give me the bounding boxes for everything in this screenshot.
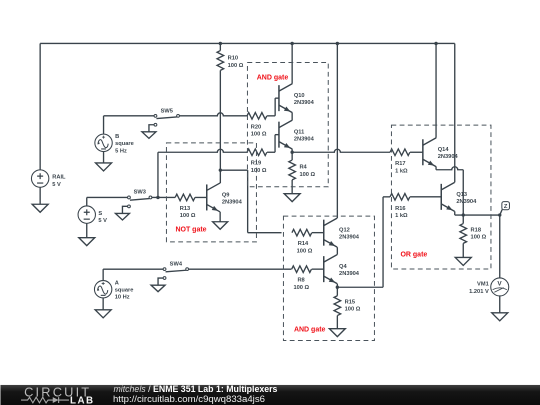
svg-text:R18: R18 [471, 227, 481, 233]
svg-text:100 Ω: 100 Ω [345, 307, 361, 313]
transistor Q14 [423, 138, 459, 167]
title text [113, 384, 278, 404]
resistor R4 [289, 152, 316, 193]
wire B to SW5 [104, 115, 155, 117]
svg-text:R20: R20 [251, 124, 261, 130]
svg-text:Q12: Q12 [339, 228, 350, 234]
svg-text:VM1: VM1 [477, 282, 489, 288]
transistor Q4 [324, 255, 360, 284]
wire Q12 emitter to Q4 collector [336, 247, 338, 255]
transistor Q12 [324, 218, 360, 247]
svg-text:SW4: SW4 [170, 261, 183, 267]
wire Q10 collector to rail [291, 43, 293, 83]
ground VM1 [492, 313, 508, 321]
ground RAIL [32, 204, 48, 212]
svg-text:100 Ω: 100 Ω [228, 63, 244, 69]
svg-text:RAIL: RAIL [52, 175, 66, 181]
node junction top-R10 [219, 42, 222, 45]
resistor R15 [334, 287, 361, 328]
svg-text:2N3904: 2N3904 [294, 137, 315, 143]
wire rail top [40, 43, 455, 169]
wire R17 to Q14 base [410, 151, 423, 153]
svg-text:Q14: Q14 [438, 147, 450, 153]
svg-text:SW5: SW5 [161, 109, 173, 115]
svg-text:100 Ω: 100 Ω [180, 213, 196, 219]
svg-text:100 Ω: 100 Ω [251, 168, 267, 174]
svg-text:2N3904: 2N3904 [339, 235, 360, 241]
node junction top-Q12 collector [336, 42, 339, 45]
svg-text:Q9: Q9 [222, 192, 230, 198]
wire Q11 emitter [291, 149, 293, 152]
wire R20 to Q10 base [267, 98, 279, 116]
label OR gate [400, 251, 427, 258]
wire SW5 to R20 [179, 113, 247, 116]
resistor R16 [390, 194, 410, 220]
svg-text:R16: R16 [395, 206, 405, 212]
wire R19 to Q11 base [267, 135, 279, 153]
svg-text:100 Ω: 100 Ω [297, 248, 313, 254]
svg-text:mitchels / ENME 351 Lab 1: Mul: mitchels / ENME 351 Lab 1: Multiplexers [113, 384, 277, 394]
svg-text:R4: R4 [299, 165, 307, 171]
switch SW4 [151, 261, 189, 291]
ground S [79, 238, 95, 246]
svg-text:2N3904: 2N3904 [294, 100, 315, 106]
svg-text:R15: R15 [345, 300, 355, 306]
svg-text:http://circuitlab.com/c9qwq833: http://circuitlab.com/c9qwq833a4js6 [113, 394, 265, 404]
svg-text:Q11: Q11 [294, 130, 304, 136]
svg-text:R17: R17 [395, 161, 405, 167]
svg-text:S: S [98, 211, 102, 217]
wire AND1 output to R17 [292, 149, 390, 152]
resistor R14 [292, 229, 313, 254]
svg-text:square: square [115, 141, 134, 147]
wire R14 to Q12 base [312, 232, 324, 234]
svg-text:100 Ω: 100 Ω [251, 132, 267, 138]
voltage source RAIL [31, 170, 66, 204]
voltage source A [94, 269, 133, 310]
logo CircuitLab [21, 384, 93, 405]
ground B [96, 163, 112, 171]
svg-text:R14: R14 [298, 241, 309, 247]
box AND gate 1 [247, 62, 328, 186]
wire R8 to Q4 base [312, 268, 324, 270]
wire AND2 output to R16 [337, 197, 390, 287]
svg-text:Q10: Q10 [294, 93, 305, 99]
switch SW5 [142, 109, 180, 139]
svg-text:R13: R13 [180, 206, 190, 212]
resistor R20 [247, 113, 267, 138]
wire Q12 collector to rail [336, 43, 338, 218]
voltmeter VM1 [469, 278, 509, 313]
wire A to SW4 [103, 268, 163, 270]
voltage source S [78, 197, 107, 237]
svg-text:R8: R8 [297, 278, 304, 284]
svg-text:100 Ω: 100 Ω [293, 285, 309, 291]
node junction R18 [462, 213, 465, 216]
node junction Z [498, 213, 501, 216]
ground R15 [329, 329, 345, 337]
svg-text:Q13: Q13 [456, 192, 467, 198]
wire Q14 emitter to output [436, 167, 463, 215]
resistor R17 [390, 149, 410, 175]
ground Q9 [213, 222, 228, 230]
resistor R19 [247, 149, 267, 174]
wire NOT output to R14 [220, 170, 281, 233]
wire SW3 to R13 [152, 196, 175, 198]
label NOT gate [175, 226, 206, 233]
svg-text:1.201 V: 1.201 V [469, 289, 489, 295]
node junction top-Q10 collector [290, 42, 293, 45]
resistor R13 [175, 194, 196, 219]
node junction AND1 output [290, 151, 293, 154]
label AND gate 2 [294, 326, 326, 333]
resistor R8 [292, 266, 312, 291]
svg-text:NOT gate: NOT gate [175, 226, 206, 233]
node junction AND2 output [336, 286, 339, 289]
wire S branch to R19 [158, 149, 247, 197]
svg-text:2N3904: 2N3904 [339, 271, 360, 277]
wire R10 to Q9 collector [219, 70, 221, 183]
wire Z to VM1 [499, 215, 501, 278]
svg-text:5 V: 5 V [52, 182, 61, 188]
node Z flag [500, 202, 510, 215]
svg-text:1 kΩ: 1 kΩ [395, 213, 408, 219]
svg-text:B: B [115, 134, 119, 140]
ground A [95, 310, 111, 318]
wire Q13 collector to rail [454, 43, 456, 182]
svg-text:2N3904: 2N3904 [222, 199, 243, 205]
svg-text:2N3904: 2N3904 [456, 199, 477, 205]
svg-text:R10: R10 [228, 56, 238, 62]
wire SW4 to R8 [189, 268, 292, 270]
transistor Q10 [279, 84, 315, 113]
transistor Q11 [279, 120, 315, 149]
svg-text:100 Ω: 100 Ω [299, 172, 315, 178]
svg-text:5 V: 5 V [98, 218, 107, 224]
svg-text:AND gate: AND gate [294, 326, 326, 333]
svg-text:OR gate: OR gate [400, 251, 427, 258]
box NOT gate [166, 143, 256, 242]
ground R4 [284, 194, 300, 202]
svg-text:A: A [115, 280, 119, 286]
svg-text:5 Hz: 5 Hz [115, 148, 127, 154]
node junction SW3 branch [156, 196, 159, 199]
wire R13 to Q9 base [195, 196, 207, 198]
resistor R10 [217, 43, 244, 70]
node junction top-Q14 collector [434, 42, 437, 45]
ground R18 [455, 257, 471, 265]
svg-text:square: square [115, 288, 134, 294]
svg-text:V: V [497, 280, 502, 287]
transistor Q9 [207, 183, 243, 212]
node junction NOT output branch [219, 168, 222, 171]
wire R16 to Q13 base [410, 196, 441, 198]
wire Q9 emitter [219, 212, 221, 222]
svg-text:100 Ω: 100 Ω [471, 235, 487, 241]
svg-text:LAB: LAB [70, 396, 93, 405]
wire Q13 emitter to output [455, 211, 500, 215]
label AND gate 1 [257, 74, 289, 81]
switch SW3 [115, 190, 151, 220]
voltage source B [95, 116, 134, 163]
wire S to SW3 [87, 196, 128, 198]
svg-text:Z: Z [504, 204, 508, 210]
wire Q14 collector to rail [435, 43, 437, 137]
transistor Q13 [441, 182, 477, 211]
wire Q4 emitter [336, 284, 338, 288]
resistor R18 [460, 215, 487, 257]
svg-text:Q4: Q4 [339, 264, 347, 270]
wire Q10 emitter to Q11 collector [291, 113, 293, 121]
svg-text:1 kΩ: 1 kΩ [395, 168, 408, 174]
svg-text:AND gate: AND gate [257, 74, 289, 81]
svg-text:SW3: SW3 [134, 190, 146, 196]
box OR gate [391, 125, 491, 269]
svg-text:10 Hz: 10 Hz [115, 295, 130, 301]
box AND gate 2 [283, 216, 374, 340]
bottom bar [0, 385, 540, 405]
